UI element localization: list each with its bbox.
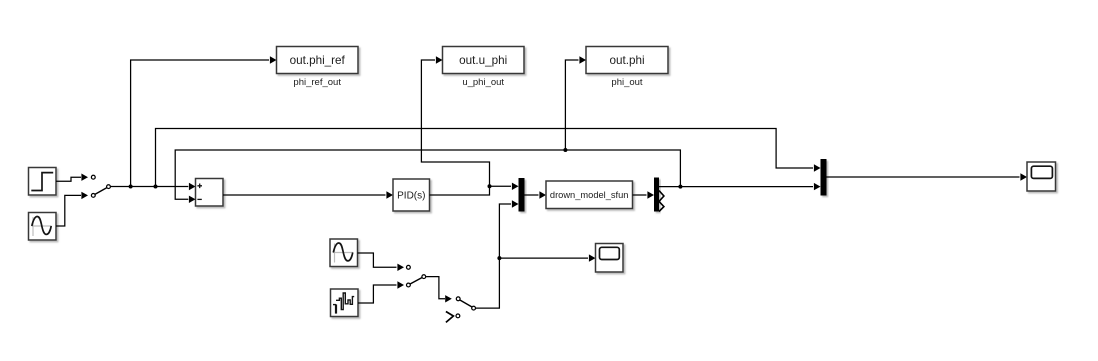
svg-text:out.phi_ref: out.phi_ref (290, 54, 346, 67)
wire Manual Switch1 to Manual Switch2 input 1 (426, 277, 452, 303)
wire Manual Switch2 to Mux input 2 (476, 200, 519, 308)
mux block Mux2 (821, 159, 827, 196)
wire Demux output 1 to Mux2 input 2 (659, 183, 821, 190)
wire PID output up to out.u_phi (421, 56, 489, 195)
wire Sum to PID controller (223, 191, 393, 198)
sine wave source block Sine Wave (29, 213, 57, 241)
wire tap up to out.phi (565, 56, 586, 150)
manual switch Manual Switch (selects lower input) (91, 175, 110, 197)
s-function block drown_model_sfun (546, 181, 633, 209)
PID controller block PID(s) (393, 179, 430, 211)
scope block Scope1 (596, 244, 624, 273)
sum block Sum (196, 179, 224, 207)
wire Uniform Random Number to Manual Switch1 input 2 (358, 281, 404, 303)
junction node PID output branch (488, 184, 492, 188)
goto block out.phi_ref (277, 47, 359, 74)
wire Sine Wave to Manual Switch input 2 (56, 192, 88, 226)
svg-text:phi_out: phi_out (611, 77, 643, 88)
demux block Demux (654, 178, 664, 212)
svg-text:out.phi: out.phi (609, 54, 644, 67)
wire tap up to out.phi_ref (131, 56, 277, 186)
goto block out.u_phi (443, 47, 525, 74)
sine wave source block Sine Wave1 (330, 239, 358, 267)
svg-text:PID(s): PID(s) (397, 191, 425, 202)
svg-text:u_phi_out: u_phi_out (462, 77, 504, 88)
goto block out.phi (586, 47, 668, 74)
scope block Scope (1027, 162, 1056, 191)
step source block Step (29, 168, 57, 196)
wire Manual Switch to Sum plus input (111, 183, 196, 190)
junction node to Mux2 reference tap (154, 185, 158, 189)
wire Mux2 to Scope (827, 173, 1028, 180)
svg-text:phi_ref_out: phi_ref_out (293, 77, 341, 88)
wire Step to Manual Switch input 1 (56, 174, 88, 182)
svg-text:drown_model_sfun: drown_model_sfun (550, 190, 629, 200)
wire feedback to Sum minus input (175, 150, 680, 203)
wire branch to Mux input 1 (490, 183, 519, 190)
wire Mux to drown_model_sfun (525, 191, 547, 198)
manual switch Manual Switch2 (selects upper input) (446, 297, 476, 323)
junction node scope1 tap (497, 256, 501, 260)
junction node feedback tap (678, 185, 682, 189)
wire Sine Wave1 to Manual Switch1 input 1 (358, 253, 405, 271)
random stair source block Uniform Random Number (331, 289, 359, 317)
junction node phi_out tap (563, 148, 567, 152)
mux block Mux (519, 178, 525, 212)
wire reference signal to Mux2 input 1 (156, 129, 821, 187)
manual switch Manual Switch1 (selects lower input) (407, 265, 426, 287)
svg-text:out.u_phi: out.u_phi (459, 54, 507, 67)
wire branch to Scope1 (499, 254, 595, 261)
wire drown_model_sfun to Demux (633, 191, 655, 198)
junction node to phi_ref_out tap (129, 185, 133, 189)
